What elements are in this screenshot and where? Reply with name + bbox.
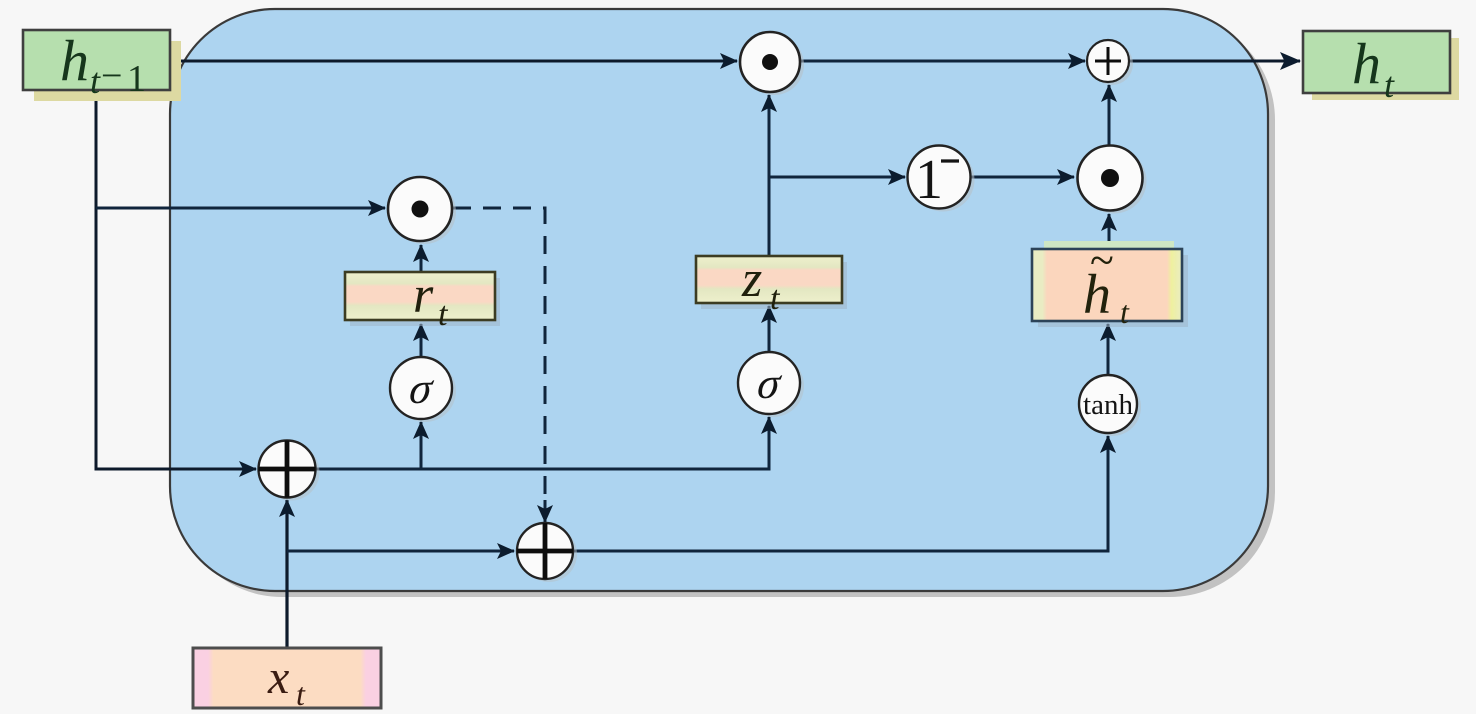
svg-text:t: t (438, 296, 449, 333)
svg-text:1: 1 (127, 58, 146, 100)
svg-text:r: r (413, 267, 434, 324)
svg-text:1: 1 (915, 149, 943, 211)
svg-text:x: x (267, 651, 289, 704)
h-tilde box (1032, 236, 1188, 330)
svg-text:~: ~ (1090, 236, 1114, 285)
GRU cell body (170, 9, 1268, 591)
svg-text:z: z (741, 251, 762, 308)
sigma circle 1 (reset gate) (390, 357, 456, 422)
wire: 1-minus to mult3 (970, 176, 1074, 179)
wire: h-tilde up to mult3 (1108, 214, 1111, 249)
wire: branch up to sigma1 (420, 422, 423, 469)
svg-text:tanh: tanh (1083, 389, 1133, 421)
plus circle (output sum) (1087, 40, 1133, 85)
1-minus circle (908, 146, 975, 212)
r_t box (345, 267, 500, 333)
wire: x_t branch to plus2 (287, 550, 514, 553)
svg-text:t: t (770, 280, 781, 317)
tanh circle (1079, 375, 1141, 436)
wire: sigma1 to r_t (420, 324, 423, 357)
wire: mult3 up to plus circle (1108, 85, 1111, 145)
wire: branch to reset mult circle (96, 207, 385, 210)
wire: plus circle to h_t (1129, 60, 1300, 63)
mult circle 2 (top, update gate product) (740, 32, 804, 95)
h_t box (1303, 31, 1459, 105)
svg-text:t: t (296, 676, 306, 712)
svg-text:h: h (1352, 31, 1381, 96)
oplus circle 2 (concat bottom) (517, 523, 577, 582)
svg-text:t: t (1120, 294, 1130, 330)
svg-text:−: − (101, 55, 122, 97)
GRU cell body shadow (177, 15, 1275, 597)
oplus circle 1 (concat left) (259, 441, 320, 501)
svg-text:h: h (60, 28, 89, 93)
sigma circle 2 (update gate) (738, 352, 804, 417)
h_{t-1} box (23, 28, 181, 101)
svg-text:t: t (1384, 65, 1395, 105)
wire: x_t riser to plus1 (285, 500, 288, 648)
wire: branch to 1-minus circle (769, 176, 905, 179)
wire: mult circle to plus circle (top) (800, 60, 1085, 63)
wire: z_t up to mult2 (top) (768, 95, 771, 256)
wire: h_{t-1} down the left side (96, 90, 256, 469)
wire: sigma2 to z_t (768, 306, 771, 352)
wire: plus1 out to sigma2 riser (315, 417, 769, 469)
x_t box (193, 648, 381, 712)
wire: plus2 out right and up to tanh (573, 436, 1108, 551)
svg-text:t: t (90, 61, 101, 101)
z_t box (696, 251, 847, 317)
mult circle 1 (reset gate product) (388, 177, 456, 244)
mult circle 3 (candidate product) (1078, 146, 1147, 214)
wire: tanh up to h-tilde (1107, 324, 1110, 375)
wire: r_t to mult1 (420, 245, 423, 272)
wire: h_{t-1} to mult circle (top) (170, 60, 737, 63)
wire: dashed reset path (453, 208, 545, 505)
